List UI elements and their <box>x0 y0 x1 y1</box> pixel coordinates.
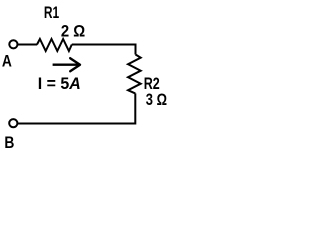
wire from R1 to top-right corner <box>72 45 136 55</box>
svg-text:B: B <box>4 133 14 152</box>
svg-text:2 Ω: 2 Ω <box>61 22 85 41</box>
wire from R2 down to bottom-right corner and left to B <box>18 93 135 123</box>
svg-text:3 Ω: 3 Ω <box>146 90 167 109</box>
wire from A to R1 <box>18 44 38 46</box>
svg-text:I = 5A: I = 5A <box>38 74 81 93</box>
svg-text:R1: R1 <box>44 3 59 22</box>
terminal A <box>9 40 17 48</box>
svg-text:A: A <box>2 51 12 70</box>
current arrow <box>53 63 80 65</box>
resistor R1 <box>37 39 72 51</box>
terminal B <box>9 119 17 127</box>
resistor R2 <box>128 55 141 94</box>
